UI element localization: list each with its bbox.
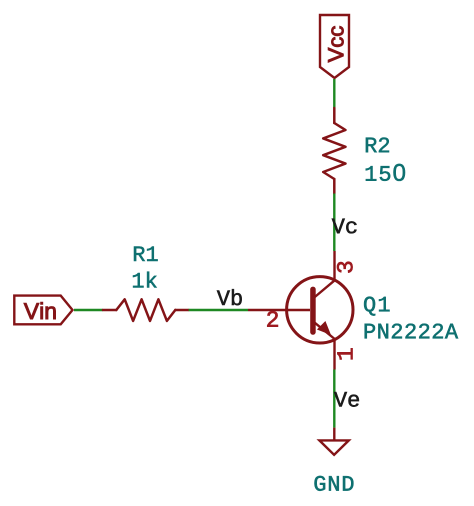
value label 150 — [366, 164, 405, 181]
transistor Q1 emitter pin — [333, 339, 335, 370]
power net name GND — [315, 476, 354, 491]
pin number 1 — [337, 348, 352, 359]
net label Ve — [334, 392, 359, 407]
wire R1 to base (net Vb) — [189, 309, 248, 311]
wire R2 to collector (net Vc) — [333, 194, 335, 252]
transistor Q1 base pin — [248, 309, 310, 311]
reference label R1 — [134, 247, 158, 262]
transistor Q1 emitter diagonal — [313, 321, 335, 339]
hierarchical label Vin flag — [14, 296, 72, 325]
wire emitter to GND (net Ve) — [333, 370, 335, 428]
transistor Q1 body circle — [287, 277, 353, 343]
transistor Q1 base bar — [310, 287, 316, 335]
value label PN2222A — [365, 324, 458, 339]
wire Vin to R1 — [74, 309, 103, 311]
value label 1k — [133, 272, 157, 288]
reference label R2 — [366, 138, 389, 153]
ground symbol GND — [319, 428, 348, 455]
net label Vb — [217, 289, 242, 305]
resistor R2 — [323, 108, 345, 194]
power label Vcc text — [328, 26, 343, 62]
resistor R1 — [103, 299, 189, 321]
pin number 2 — [267, 311, 278, 326]
net label Vc — [332, 219, 357, 234]
hierarchical label Vin text — [24, 302, 56, 319]
power label Vcc flag — [320, 15, 349, 78]
transistor Q1 collector diagonal — [313, 280, 335, 298]
transistor Q1 emitter arrow — [317, 321, 331, 335]
wire Vcc to R2 — [333, 79, 335, 108]
transistor Q1 collector pin — [333, 251, 335, 280]
pin number 3 — [337, 262, 353, 273]
reference label Q1 — [364, 297, 389, 316]
